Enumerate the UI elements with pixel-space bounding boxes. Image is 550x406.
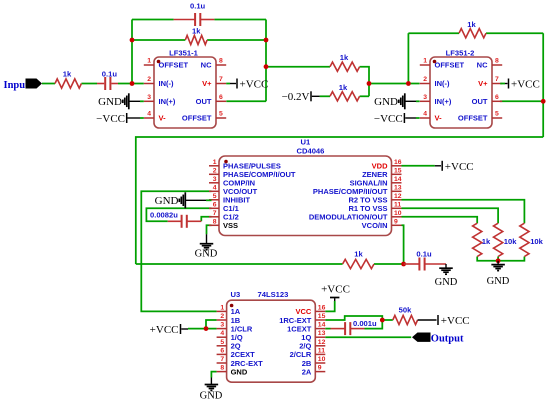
U3 pin 5 2Q: [217, 339, 241, 351]
U1 pin 12 R2 TO VSS: [348, 193, 401, 205]
svg-text:+VCC: +VCC: [441, 315, 470, 327]
U1 pin 15 ZENER: [362, 167, 402, 179]
wire +VCC to U3 1/CLR: [188, 328, 217, 330]
junction pin15 node: [380, 318, 385, 323]
op-amp LF351-1 | pin 5 OFFSET of LF351-1: [182, 111, 226, 123]
wire input to R1: [42, 83, 55, 85]
svg-text:1: 1: [213, 159, 217, 166]
svg-text:0.1u: 0.1u: [190, 1, 206, 10]
U3 pin 4 1/Q: [217, 330, 243, 342]
svg-text:13: 13: [394, 184, 402, 191]
wire resistor bottom rail: [477, 257, 524, 261]
svg-text:−VCC: −VCC: [374, 113, 403, 125]
op-amp LF351-1 | pin 2 IN(-) of LF351-1: [144, 76, 174, 88]
U1 pin 3 COMP/IN: [209, 176, 255, 188]
svg-text:0.1u: 0.1u: [102, 70, 118, 79]
ground at U1 INHIBIT: [155, 192, 212, 208]
svg-text:LF351-2: LF351-2: [446, 49, 475, 58]
svg-text:11: 11: [394, 201, 401, 208]
svg-text:V+: V+: [202, 79, 212, 88]
op-amp LF351-1 | chip body LF351-1: [154, 49, 216, 129]
wire long return rail: [136, 137, 543, 264]
power +VCC at R9: [418, 315, 470, 327]
svg-text:4: 4: [220, 330, 224, 337]
svg-text:GND: GND: [231, 367, 248, 376]
svg-text:1k: 1k: [340, 53, 349, 62]
wire feedback top rail right: [214, 19, 266, 21]
op-amp LF351-1 | pin 6 OUT of LF351-1: [196, 94, 227, 106]
svg-text:3: 3: [220, 322, 224, 329]
svg-text:GND: GND: [435, 277, 458, 288]
svg-text:8: 8: [495, 58, 499, 65]
power +VCC at U3 1/CLR: [150, 324, 188, 336]
svg-text:IN(+): IN(+): [435, 97, 452, 106]
U3 pin 16 VCC: [295, 304, 325, 316]
svg-text:7: 7: [220, 356, 224, 363]
svg-text:6: 6: [220, 347, 224, 354]
svg-text:NC: NC: [201, 61, 212, 70]
svg-text:50k: 50k: [399, 306, 412, 315]
svg-text:+VCC: +VCC: [321, 284, 350, 296]
svg-text:4: 4: [423, 111, 427, 118]
wire R3 to riser x369: [360, 67, 369, 97]
svg-text:GND: GND: [195, 248, 218, 259]
svg-text:Output: Output: [431, 333, 464, 344]
svg-text:10k: 10k: [504, 237, 517, 246]
ground at LF351-1 IN(+): [98, 93, 144, 109]
junction at input node: [130, 81, 135, 86]
capacitor C4 0.1u: [404, 249, 446, 270]
svg-text:4: 4: [147, 111, 151, 118]
svg-text:LF351-1: LF351-1: [169, 49, 198, 58]
capacitor C2 0.1u feedback: [174, 1, 215, 26]
svg-text:7: 7: [219, 76, 223, 83]
wire LF351-1 OUT to riser: [226, 100, 266, 102]
U3 pin 6 2CEXT: [217, 347, 256, 359]
svg-text:5: 5: [220, 339, 224, 346]
wire feedback top rail: [132, 19, 174, 21]
svg-text:15: 15: [318, 313, 326, 320]
svg-text:2: 2: [147, 76, 151, 83]
wire pin15 node to R9: [382, 319, 393, 321]
op-amp LF351-2 | pin 7 V+ of LF351-2: [478, 76, 502, 88]
svg-text:−VCC: −VCC: [96, 113, 125, 125]
IC U1 CD4046 body: [219, 138, 392, 236]
U1 pin 1 PHASE/PULSES: [209, 159, 281, 171]
U1 pin 7 C1/2: [209, 210, 239, 222]
U3 pin 15 1RC-EXT: [279, 313, 325, 325]
op-amp LF351-2 | pin 8 NC of LF351-2: [477, 58, 503, 70]
svg-text:IN(-): IN(-): [159, 79, 174, 88]
svg-text:VCO/IN: VCO/IN: [362, 221, 388, 230]
svg-text:2A: 2A: [302, 367, 312, 376]
power -VCC at LF351-1: [96, 113, 144, 125]
ground at C4: [435, 264, 458, 288]
junction LF351-2 output: [541, 99, 546, 104]
svg-text:11: 11: [318, 347, 325, 354]
U3 pin 2 1B: [217, 313, 241, 325]
wire U1 pin12 to R8: [402, 200, 525, 223]
U1 pin 10 DEMODULATION/OUT: [309, 210, 402, 222]
svg-text:13: 13: [318, 330, 326, 337]
wire rail to R5: [136, 263, 343, 265]
svg-text:NC: NC: [477, 61, 488, 70]
svg-text:1k: 1k: [467, 20, 476, 29]
U1 pin 13 PHASE/COMP/II/OUT: [313, 184, 402, 196]
svg-text:10: 10: [394, 210, 402, 217]
svg-text:8: 8: [219, 58, 223, 65]
svg-text:8: 8: [220, 365, 224, 372]
svg-text:1k: 1k: [354, 249, 363, 258]
ground below resistor rail: [487, 261, 510, 287]
svg-text:14: 14: [394, 176, 402, 183]
resistor R9 50k: [393, 306, 418, 325]
svg-text:+VCC: +VCC: [240, 79, 269, 91]
U3 pin 11 2/CLR: [290, 347, 326, 359]
wire mid rail R7 bottom: [497, 257, 499, 261]
op-amp LF351-2 | pin 4 V- of LF351-2: [420, 111, 442, 123]
svg-text:16: 16: [394, 159, 402, 166]
U3 pin 13 1Q: [301, 330, 325, 342]
U3 pin 7 2RC-EXT: [217, 356, 264, 368]
junction feedback right: [264, 38, 269, 43]
U3 pin 12 2/Q: [299, 339, 325, 351]
svg-text:OFFSET: OFFSET: [182, 114, 212, 123]
resistor R6 1k: [473, 223, 491, 256]
wire feedback2 rail left: [408, 32, 459, 34]
svg-text:GND: GND: [200, 391, 223, 402]
wire feedback mid rail left: [132, 39, 185, 41]
svg-text:V-: V-: [159, 114, 167, 123]
wire U3 VCC to +VCC: [325, 301, 334, 311]
resistor R3 1k: [330, 53, 360, 71]
junction resistor rail: [496, 258, 501, 263]
svg-text:5: 5: [219, 111, 223, 118]
svg-text:12: 12: [394, 193, 402, 200]
op-amp LF351-1 | pin 1 OFFSET of LF351-1: [144, 58, 189, 70]
op-amp LF351-2 | pin 2 IN(-) of LF351-2: [420, 76, 450, 88]
wire U1 pin4 VCO/OUT to U3 1A: [141, 191, 216, 311]
U3 pin 14 1CEXT: [287, 322, 325, 334]
resistor R10 1k feedback: [459, 20, 486, 38]
svg-text:1: 1: [147, 58, 151, 65]
junction output node: [264, 64, 269, 69]
op-amp LF351-2 | pin 3 IN(+) of LF351-2: [420, 94, 452, 106]
wire U3 GND pin to ground: [211, 372, 216, 378]
U1 pin 2 PHASE/COMP/I/OUT: [209, 167, 296, 179]
op-amp LF351-2 | pin 5 OFFSET of LF351-2: [458, 111, 502, 123]
svg-text:0.001u: 0.001u: [353, 319, 377, 328]
svg-text:5: 5: [495, 111, 499, 118]
svg-text:9: 9: [394, 218, 398, 225]
wire LF351-2 output riser: [542, 33, 544, 137]
svg-text:1k: 1k: [192, 27, 201, 36]
svg-text:2: 2: [220, 313, 224, 320]
svg-text:2: 2: [423, 76, 427, 83]
port Output: [412, 333, 464, 345]
ground below U3 GND pin: [200, 378, 223, 402]
U3 pin 1 1A: [217, 304, 241, 316]
svg-text:1k: 1k: [482, 237, 491, 246]
op-amp LF351-1 | pin 8 NC of LF351-1: [201, 58, 227, 70]
junction LF351-2 input node: [406, 81, 411, 86]
U1 pin 5 INHIBIT: [209, 193, 251, 205]
svg-text:12: 12: [318, 339, 326, 346]
svg-text:−0.2V: −0.2V: [282, 91, 310, 103]
capacitor C3 0.0082u: [150, 210, 201, 228]
wire LF351-1 output riser: [265, 20, 267, 102]
power +VCC at LF351-2: [500, 79, 540, 91]
wire U1 VSS to ground: [207, 225, 212, 234]
svg-text:3: 3: [147, 94, 151, 101]
svg-text:4: 4: [213, 184, 217, 191]
svg-text:IN(+): IN(+): [159, 97, 176, 106]
svg-text:9: 9: [318, 365, 322, 372]
U1 pin 16 VDD: [372, 159, 402, 171]
U1 pin 9 VCO/IN: [362, 218, 402, 230]
svg-text:OFFSET: OFFSET: [435, 61, 465, 70]
svg-text:0.0082u: 0.0082u: [150, 210, 178, 219]
svg-text:5: 5: [213, 193, 217, 200]
U1 pin 11 R1 TO VSS: [348, 201, 401, 213]
svg-text:10k: 10k: [530, 237, 543, 246]
svg-text:6: 6: [213, 201, 217, 208]
wire U3 pin14 to C5: [325, 328, 330, 330]
svg-text:+VCC: +VCC: [150, 324, 179, 336]
svg-text:GND: GND: [487, 276, 510, 287]
svg-text:GND: GND: [374, 96, 398, 108]
wire U1 pin6 loop: [146, 208, 211, 221]
ground at LF351-2 IN(+): [374, 93, 419, 109]
U3 pin 8 GND: [217, 365, 248, 377]
junction feedback left: [130, 38, 135, 43]
svg-text:V+: V+: [478, 79, 488, 88]
wire R1 to C1: [81, 83, 97, 85]
op-amp LF351-2 | pin 1 OFFSET of LF351-2: [420, 58, 465, 70]
wire R5 to VCO/IN node: [374, 263, 404, 265]
svg-text:8: 8: [213, 218, 217, 225]
source -0.2V: [282, 91, 320, 103]
power +VCC at LF351-1: [226, 79, 268, 91]
wire feedback left riser: [131, 20, 133, 84]
junction summing riser: [367, 81, 372, 86]
svg-text:6: 6: [495, 94, 499, 101]
wire summing node to LF351-2 IN-: [369, 83, 420, 85]
U1 pin 8 VSS: [209, 218, 238, 230]
svg-text:1: 1: [423, 58, 427, 65]
svg-text:3: 3: [423, 94, 427, 101]
wire +VCC jog to U3 1B: [206, 320, 217, 329]
U1 pin 4 VCO/OUT: [209, 184, 258, 196]
U1 pin 6 C1/1: [209, 201, 239, 213]
op-amp LF351-1 | pin 3 IN(+) of LF351-1: [144, 94, 176, 106]
svg-text:1k: 1k: [339, 83, 348, 92]
svg-text:74LS123: 74LS123: [258, 290, 289, 299]
op-amp LF351-1 | pin 7 V+ of LF351-1: [202, 76, 226, 88]
power +VCC above U3 VCC pin: [321, 284, 350, 302]
wire U1 pin11 to R7: [402, 208, 499, 223]
U3 pin 3 1/CLR: [217, 322, 253, 334]
power +VCC at U1 VDD: [435, 161, 474, 173]
svg-text:U3: U3: [231, 290, 241, 299]
wire feedback mid rail right: [207, 39, 266, 41]
svg-text:Input: Input: [4, 80, 30, 91]
svg-text:2: 2: [213, 167, 217, 174]
resistor R4 1k: [330, 83, 360, 101]
U3 pin 10 2B: [302, 356, 326, 368]
capacitor C5 0.001u: [331, 319, 378, 335]
svg-text:OFFSET: OFFSET: [458, 114, 488, 123]
wire U3 1Q to output: [325, 336, 411, 338]
U3 pin 9 2A: [302, 365, 326, 377]
power -VCC at LF351-2: [374, 113, 420, 125]
resistor R1 1k: [55, 70, 81, 89]
resistor R2 1k feedback: [185, 27, 207, 45]
wire U3 pin15 over-route: [325, 316, 382, 320]
svg-text:0.1u: 0.1u: [416, 249, 432, 258]
wire U1 VDD to +VCC: [402, 165, 435, 167]
op-amp LF351-2 | pin 6 OUT of LF351-2: [472, 94, 503, 106]
svg-text:16: 16: [318, 304, 326, 311]
op-amp LF351-2 | chip body LF351-2: [430, 49, 492, 129]
wire U1 pin10 to R6: [402, 217, 478, 223]
svg-text:OUT: OUT: [196, 97, 212, 106]
svg-text:V-: V-: [435, 114, 443, 123]
junction +VCC node U3: [204, 326, 209, 331]
resistor R7 10k: [494, 223, 518, 256]
svg-text:7: 7: [495, 76, 499, 83]
resistor R8 10k: [520, 223, 544, 256]
svg-text:3: 3: [213, 176, 217, 183]
resistor R5 1k: [343, 249, 374, 268]
wire R4 right: [360, 95, 369, 97]
svg-text:U1: U1: [301, 138, 311, 147]
IC U3 74LS123 body: [227, 290, 316, 382]
port Input: [4, 79, 43, 91]
wire VCO/IN riser: [402, 225, 404, 264]
svg-text:15: 15: [394, 167, 402, 174]
svg-text:GND: GND: [98, 96, 122, 108]
svg-text:GND: GND: [155, 195, 179, 207]
wire -0.2V to R4: [320, 95, 330, 97]
svg-text:CD4046: CD4046: [297, 147, 325, 156]
U1 pin 14 SIGNAL/IN: [350, 176, 402, 188]
op-amp LF351-1 | pin 4 V- of LF351-1: [144, 111, 166, 123]
wire C1 to LF351-1 pin2, junction column: [118, 83, 144, 85]
svg-text:1: 1: [220, 304, 224, 311]
wire LF351-2 feedback riser: [407, 33, 409, 83]
junction VCO/IN node: [401, 262, 406, 267]
svg-text:+VCC: +VCC: [511, 79, 540, 91]
wire C5 to pin15 node: [365, 320, 383, 329]
capacitor C1 0.1u: [97, 70, 118, 91]
svg-text:6: 6: [219, 94, 223, 101]
wire LF351-2 OUT: [500, 100, 543, 102]
svg-text:+VCC: +VCC: [445, 161, 474, 173]
wire U1 pin7 jog: [201, 217, 211, 222]
svg-text:OFFSET: OFFSET: [159, 61, 189, 70]
svg-text:10: 10: [318, 356, 326, 363]
svg-text:1k: 1k: [63, 70, 72, 79]
svg-text:IN(-): IN(-): [435, 79, 450, 88]
svg-text:OUT: OUT: [472, 97, 488, 106]
wire feedback2 rail right: [486, 32, 543, 34]
wire node to R3: [266, 66, 330, 68]
ground below U1 VSS: [195, 234, 218, 259]
svg-text:7: 7: [213, 210, 217, 217]
svg-text:VSS: VSS: [223, 221, 238, 230]
svg-text:14: 14: [318, 322, 326, 329]
